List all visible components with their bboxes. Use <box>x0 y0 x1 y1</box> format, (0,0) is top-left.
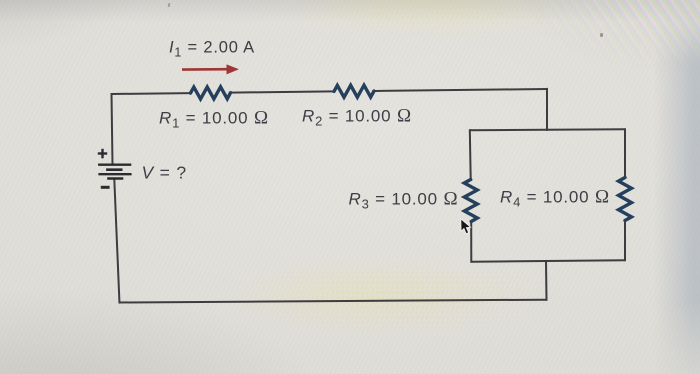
resistor R4 <box>619 178 632 221</box>
svg-text:R4 = 10.00 Ω: R4 = 10.00 Ω <box>500 187 610 210</box>
wire: right vertical upper (into parallel box) <box>546 88 548 131</box>
wire: top, between R1 and R2 <box>231 91 334 92</box>
wire: left vertical below battery <box>114 179 119 303</box>
wire: right vertical lower (box to bottom wire) <box>545 261 548 301</box>
battery - terminal sign <box>101 186 110 189</box>
svg-text:I1 = 2.00 A: I1 = 2.00 A <box>169 38 255 59</box>
wire: bottom <box>120 300 547 303</box>
wire: parallel box bottom edge <box>471 260 625 262</box>
svg-text:R1 = 10.00 Ω: R1 = 10.00 Ω <box>159 107 269 130</box>
resistor R2 <box>334 85 374 97</box>
resistor R1 <box>191 87 231 99</box>
battery + terminal sign <box>98 149 107 159</box>
wire: box left edge above R3 <box>469 129 472 179</box>
wire: box right edge above R4 <box>624 128 626 177</box>
battery V: plate 2 short <box>106 168 122 171</box>
battery V: plate 1 long <box>98 163 131 165</box>
current arrow I1 <box>182 64 239 74</box>
battery V: plate 3 long <box>98 173 131 175</box>
svg-text:R2 = 10.00 Ω: R2 = 10.00 Ω <box>302 105 412 128</box>
wire: left vertical above battery <box>112 93 113 165</box>
wire: top, left segment to R1 <box>112 92 191 95</box>
svg-text:V = ?: V = ? <box>142 163 187 183</box>
mouse cursor <box>461 219 471 234</box>
resistor R3 <box>464 180 477 222</box>
wire: box right edge below R4 <box>624 221 626 262</box>
wire: parallel box top edge <box>470 128 625 131</box>
svg-text:R3 = 10.00 Ω: R3 = 10.00 Ω <box>349 189 459 212</box>
wire: box left edge below R3 <box>470 222 472 263</box>
battery V: plate 4 short <box>107 177 123 180</box>
wire: top, R2 to top-right corner <box>374 89 547 91</box>
